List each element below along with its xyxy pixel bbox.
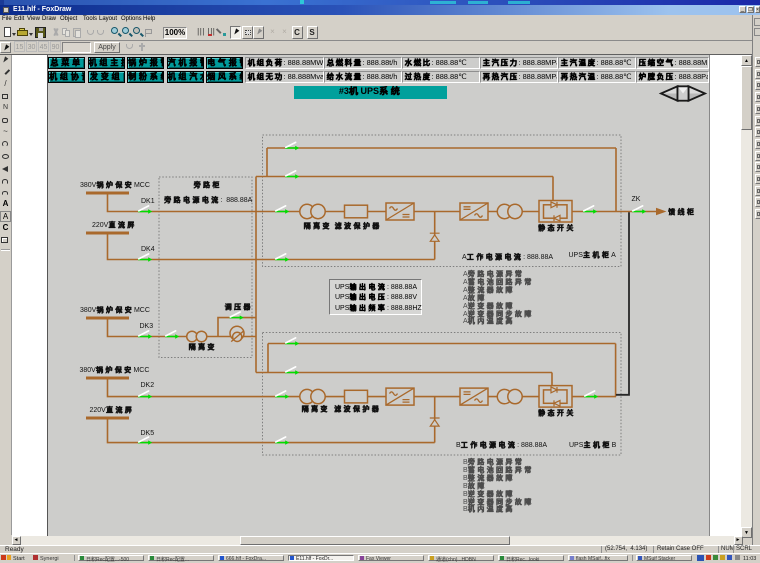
diode battery A bbox=[430, 233, 440, 241]
zoom in bbox=[109, 26, 122, 39]
wire maintenance bypass A (top loop) bbox=[267, 148, 616, 212]
wire battery riser B bbox=[434, 397, 436, 443]
breaker B maint bypass bbox=[285, 338, 299, 346]
breaker label DK4 bbox=[141, 246, 155, 253]
wire static bypass A bbox=[256, 177, 553, 202]
busbar label 380V锅炉保安MCC (DK3 source) bbox=[80, 305, 150, 315]
value B working supply current 888.88A bbox=[456, 440, 547, 450]
node ZK bbox=[632, 196, 641, 203]
value bypass supply current 旁路电源电流 888.88A bbox=[164, 195, 252, 205]
UPS cabinet B box bbox=[263, 333, 622, 456]
grayed x2 bbox=[278, 26, 291, 39]
nav diamond icon bbox=[661, 86, 705, 100]
diode battery B bbox=[430, 418, 440, 426]
value box UPS output current/voltage/frequency bbox=[329, 279, 422, 315]
wire DK3 regulator feed bbox=[108, 318, 257, 337]
save bbox=[34, 26, 47, 39]
bars1 bbox=[195, 26, 208, 39]
rectifier A details bbox=[386, 203, 488, 405]
wire bypass vertical bus bbox=[255, 177, 257, 373]
breaker DK2 bbox=[138, 391, 152, 399]
isolation transformer bypass bbox=[187, 331, 198, 342]
label bypass cabinet 旁路柜 bbox=[194, 180, 222, 190]
breaker A output bbox=[583, 206, 597, 214]
breaker ZK bbox=[632, 206, 646, 214]
filter protector A bbox=[345, 205, 368, 218]
data fields row2 bbox=[245, 71, 324, 83]
S button bbox=[307, 26, 318, 39]
busbar 220V DC 1 bbox=[86, 232, 129, 235]
breaker regulator bypass bbox=[230, 312, 244, 320]
cut (grayed) bbox=[50, 26, 63, 39]
wire battery riser A bbox=[434, 212, 436, 260]
breaker A main bbox=[275, 206, 289, 214]
voltage regulator (variac) bbox=[230, 326, 244, 340]
wire DK5 battery feed B bbox=[108, 418, 435, 443]
breaker A battery bbox=[275, 254, 289, 262]
rectifier B details bbox=[386, 388, 414, 405]
variac slash bbox=[231, 331, 243, 342]
wire output bus (black) bbox=[616, 212, 629, 395]
pen tool bbox=[216, 26, 229, 39]
rectifier A bbox=[386, 203, 414, 220]
label static switch B 静态开关 bbox=[538, 408, 576, 418]
busbars bbox=[86, 193, 129, 418]
breaker DK4 bbox=[138, 254, 152, 262]
transformer isolation A bbox=[300, 204, 314, 218]
alarm text list B bbox=[463, 459, 533, 514]
static switch B thyristors bbox=[551, 387, 557, 393]
UPS cabinet A box bbox=[263, 135, 622, 267]
bypass cabinet box bbox=[159, 177, 252, 358]
inverter A bbox=[460, 203, 488, 220]
wire regulator bypass branch bbox=[218, 318, 256, 337]
pointer pressed bbox=[230, 26, 241, 39]
label feeder cabinet 馈线柜 bbox=[668, 207, 696, 217]
new bbox=[1, 26, 14, 39]
label static switch A 静态开关 bbox=[538, 223, 576, 233]
arrow to feeder cabinet bbox=[656, 208, 667, 216]
breaker DK1 bbox=[138, 206, 152, 214]
C button bbox=[292, 26, 303, 39]
label voltage regulator 调压器 bbox=[225, 302, 253, 312]
breaker label DK5 bbox=[141, 430, 155, 437]
wire static bypass B bbox=[256, 373, 552, 387]
breaker bypass cabinet inner bbox=[165, 331, 179, 339]
label UPS main cabinet A bbox=[569, 250, 616, 260]
transformer isolation B bbox=[300, 389, 314, 403]
label filter protector B 滤波保护器 bbox=[334, 404, 381, 414]
busbar 380V boiler MCC 3 bbox=[86, 377, 129, 380]
busbar label 380V锅炉保安MCC (DK1 source) bbox=[80, 180, 150, 190]
inverter B bbox=[460, 388, 488, 405]
zoom window bbox=[131, 26, 144, 39]
breaker label DK3 bbox=[140, 323, 154, 330]
breaker B main bbox=[275, 391, 289, 399]
redo (grayed) bbox=[95, 26, 108, 39]
busbar 220V DC 2 bbox=[86, 417, 129, 420]
data fields row1 bbox=[245, 57, 324, 69]
copy (grayed) bbox=[60, 26, 73, 39]
wire DK1 feed to UPS A main bbox=[108, 193, 657, 212]
label isolation transformer A 隔离变 bbox=[304, 221, 332, 231]
busbar 380V boiler MCC 2 bbox=[86, 317, 129, 320]
transformer output A bbox=[497, 204, 511, 218]
bars2 bbox=[205, 26, 218, 39]
wire DK2 feed to UPS B main bbox=[108, 378, 617, 397]
breaker DK3 bbox=[138, 331, 152, 339]
wire maintenance bypass B (top loop) bbox=[268, 344, 616, 397]
teal menu buttons row1 bbox=[48, 57, 85, 69]
static switch A bbox=[539, 201, 572, 223]
undo (grayed) bbox=[85, 26, 98, 39]
screen title bbox=[294, 86, 447, 99]
breaker A maint bypass bbox=[285, 142, 299, 150]
breaker B output bbox=[584, 391, 598, 399]
breaker label DK2 bbox=[141, 382, 155, 389]
busbar label 220V直流屏 (DK4 source) bbox=[92, 220, 137, 230]
label isolation transformer B 隔离变 bbox=[302, 404, 330, 414]
busbar label 380V锅炉保安MCC (DK2 source) bbox=[80, 365, 150, 375]
busbar 380V boiler MCC 1 bbox=[86, 192, 129, 195]
wire DK4 battery feed A bbox=[108, 233, 435, 260]
inverter A details bbox=[460, 203, 488, 220]
busbar label 220V直流屏 (DK5 source) bbox=[90, 405, 135, 415]
box select bbox=[242, 26, 253, 39]
filter protector B bbox=[345, 390, 368, 403]
label UPS main cabinet B bbox=[569, 440, 616, 450]
pan flag (grayed) bbox=[143, 26, 156, 39]
breaker B static bypass bbox=[285, 367, 299, 375]
label isolation transformer (bypass) 隔离变 bbox=[189, 342, 217, 352]
zoom out bbox=[120, 26, 133, 39]
teal menu buttons row2 bbox=[48, 71, 85, 83]
paste (grayed) bbox=[71, 26, 84, 39]
value A working supply current 888.88A bbox=[462, 252, 553, 262]
static switch B bbox=[539, 386, 572, 408]
breaker DK5 bbox=[138, 437, 152, 445]
alarm text list A bbox=[463, 271, 533, 326]
breaker B battery bbox=[275, 437, 289, 445]
grayed x1 bbox=[266, 26, 279, 39]
transformer output B bbox=[497, 389, 511, 403]
rectifier B bbox=[386, 388, 414, 405]
components A chain bbox=[187, 201, 572, 408]
breakers bbox=[138, 142, 646, 444]
dotted cabinet boxes bbox=[159, 135, 621, 455]
static switch A thyristors bbox=[430, 202, 560, 426]
pointer 2 bbox=[253, 26, 264, 39]
inverter B details bbox=[460, 388, 488, 405]
label filter protector A 滤波保护器 bbox=[335, 221, 382, 231]
breaker label DK1 bbox=[141, 198, 155, 205]
100% box bbox=[163, 27, 187, 39]
breaker A static bypass bbox=[285, 171, 299, 179]
open bbox=[16, 26, 29, 39]
